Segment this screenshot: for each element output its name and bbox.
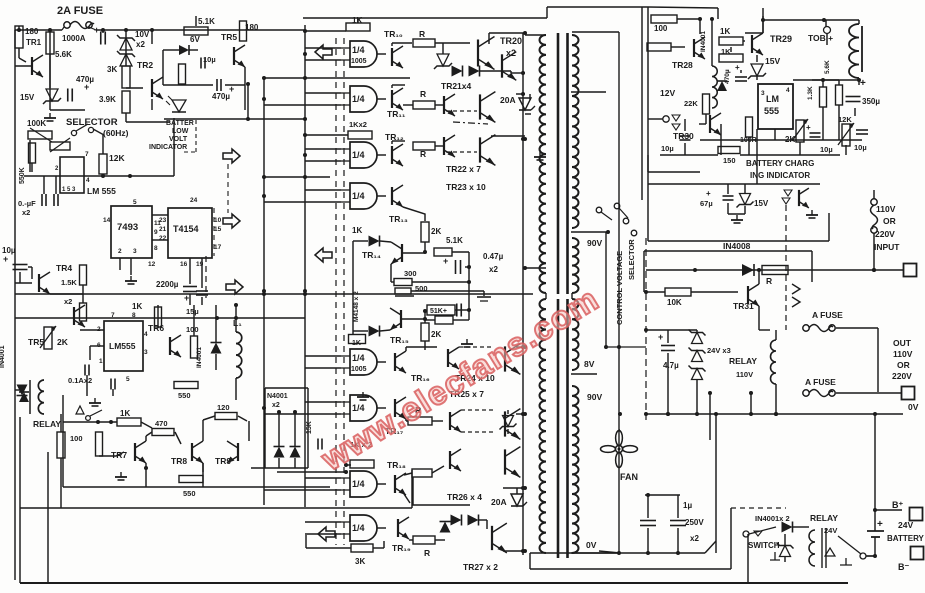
svg-text:220V: 220V	[892, 371, 912, 381]
svg-text:INDICATOR: INDICATOR	[149, 144, 187, 151]
svg-text:TR27 x 2: TR27 x 2	[463, 562, 498, 572]
svg-text:1/4: 1/4	[352, 403, 365, 413]
svg-text:20A: 20A	[500, 95, 516, 105]
svg-text:+: +	[94, 25, 99, 35]
svg-text:3K: 3K	[355, 557, 365, 566]
svg-text:2K: 2K	[431, 330, 441, 339]
svg-text:TR6: TR6	[148, 323, 164, 333]
svg-text:1K: 1K	[120, 409, 130, 418]
svg-text:17: 17	[214, 244, 222, 251]
svg-text:4: 4	[86, 177, 90, 184]
svg-text:2K: 2K	[431, 227, 441, 236]
svg-text:3.9K: 3.9K	[99, 95, 116, 104]
svg-text:B⁺: B⁺	[892, 500, 903, 510]
svg-text:L₁: L₁	[233, 318, 242, 328]
svg-text:N4001: N4001	[267, 393, 288, 400]
svg-text:24V: 24V	[898, 520, 913, 530]
svg-text:5: 5	[126, 376, 130, 383]
svg-text:10µ: 10µ	[661, 144, 674, 153]
svg-text:TR26 x 4: TR26 x 4	[447, 492, 482, 502]
svg-text:x2: x2	[136, 40, 145, 49]
svg-text:R: R	[419, 29, 425, 39]
svg-text:0.-µF: 0.-µF	[18, 199, 36, 208]
svg-text:100: 100	[70, 434, 83, 443]
svg-text:100: 100	[186, 325, 199, 334]
svg-text:5.6K: 5.6K	[824, 60, 831, 74]
svg-text:+: +	[806, 123, 811, 132]
svg-text:21: 21	[159, 226, 167, 233]
svg-text:1K: 1K	[352, 340, 361, 347]
svg-text:RELAY: RELAY	[33, 419, 61, 429]
svg-text:TR₁₀: TR₁₀	[384, 29, 403, 39]
svg-text:0V: 0V	[908, 402, 919, 412]
svg-text:1/4: 1/4	[352, 94, 365, 104]
svg-text:5.6K: 5.6K	[55, 50, 72, 59]
svg-text:100: 100	[654, 24, 668, 33]
svg-text:2: 2	[118, 248, 122, 255]
svg-text:12K: 12K	[838, 115, 852, 124]
svg-text:R: R	[766, 276, 772, 286]
svg-text:+: +	[877, 519, 883, 530]
svg-text:2K: 2K	[57, 337, 69, 347]
svg-text:+: +	[443, 256, 448, 266]
svg-text:TR5: TR5	[221, 32, 237, 42]
svg-text:1K: 1K	[352, 226, 362, 235]
svg-text:6V: 6V	[190, 35, 200, 44]
svg-text:5.1K: 5.1K	[446, 236, 463, 245]
svg-text:550: 550	[183, 489, 196, 498]
svg-text:1.5K: 1.5K	[61, 278, 77, 287]
svg-text:TR1: TR1	[26, 38, 42, 47]
svg-text:TR₁₁: TR₁₁	[387, 109, 406, 119]
svg-text:BATTERY CHARG: BATTERY CHARG	[746, 159, 814, 168]
svg-text:x2: x2	[22, 208, 30, 217]
svg-text:1/4: 1/4	[352, 150, 365, 160]
svg-text:0.47µ: 0.47µ	[483, 252, 504, 261]
svg-text:LM: LM	[766, 94, 779, 104]
svg-text:4.7µ: 4.7µ	[663, 361, 679, 370]
svg-text:TR4: TR4	[56, 263, 72, 273]
svg-text:15V: 15V	[765, 56, 780, 66]
svg-text:4: 4	[786, 87, 790, 94]
svg-text:LM 555: LM 555	[87, 186, 116, 196]
svg-text:470µ: 470µ	[212, 92, 230, 101]
svg-text:22: 22	[159, 235, 167, 242]
svg-text:180: 180	[25, 27, 39, 36]
svg-text:15µ: 15µ	[186, 307, 199, 316]
svg-text:R: R	[420, 149, 426, 159]
svg-text:x2: x2	[506, 48, 516, 58]
svg-text:24V x3: 24V x3	[707, 346, 731, 355]
svg-text:IN4001: IN4001	[0, 345, 6, 368]
svg-text:1/4: 1/4	[352, 191, 365, 201]
svg-text:5: 5	[133, 199, 137, 206]
svg-text:67µ: 67µ	[700, 199, 713, 208]
svg-text:1/4: 1/4	[352, 523, 365, 533]
svg-text:1/4: 1/4	[352, 479, 365, 489]
svg-text:IN4001: IN4001	[700, 31, 707, 52]
svg-text:+: +	[84, 82, 89, 92]
svg-text:350µ: 350µ	[862, 97, 880, 106]
svg-text:470: 470	[155, 419, 168, 428]
svg-text:300: 300	[404, 269, 417, 278]
svg-text:24V: 24V	[824, 526, 837, 535]
svg-text:TR₁₃: TR₁₃	[389, 214, 408, 224]
svg-text:OR: OR	[883, 216, 896, 226]
svg-text:7: 7	[111, 312, 115, 319]
svg-text:0V: 0V	[586, 540, 597, 550]
svg-text:1Kx2: 1Kx2	[349, 120, 367, 129]
svg-text:+: +	[658, 332, 663, 342]
svg-text:IN4001: IN4001	[196, 347, 203, 368]
svg-text:INPUT: INPUT	[874, 242, 900, 252]
svg-text:R: R	[420, 89, 426, 99]
svg-text:IN4001x 2: IN4001x 2	[755, 514, 790, 523]
svg-text:7: 7	[85, 151, 89, 158]
svg-text:CONTROL VOLTAGE: CONTROL VOLTAGE	[615, 251, 624, 325]
svg-text:9: 9	[154, 229, 158, 236]
svg-text:10µ: 10µ	[854, 143, 867, 152]
svg-text:M4148 x 2: M4148 x 2	[353, 291, 360, 322]
svg-text:FAN: FAN	[620, 472, 638, 482]
svg-text:22K: 22K	[684, 99, 698, 108]
svg-text:15K: 15K	[306, 421, 313, 434]
svg-text:51K+: 51K+	[430, 308, 447, 315]
svg-text:8: 8	[132, 312, 136, 319]
svg-text:2200µ: 2200µ	[156, 280, 179, 289]
svg-text:110V: 110V	[893, 349, 913, 359]
svg-text:14: 14	[103, 217, 111, 224]
svg-text:220V: 220V	[875, 229, 895, 239]
svg-text:90V: 90V	[587, 392, 602, 402]
svg-text:10K: 10K	[667, 298, 682, 307]
svg-text:LM555: LM555	[109, 341, 136, 351]
svg-text:TR₁₄: TR₁₄	[362, 250, 381, 260]
svg-text:7493: 7493	[117, 222, 138, 233]
svg-text:TR₁₅: TR₁₅	[390, 335, 409, 345]
svg-text:x2: x2	[489, 265, 498, 274]
svg-text:IN4008: IN4008	[723, 241, 751, 251]
svg-text:10V: 10V	[135, 30, 150, 39]
svg-text:TR2: TR2	[137, 60, 153, 70]
svg-text:10: 10	[214, 217, 222, 224]
svg-text:A FUSE: A FUSE	[805, 377, 836, 387]
svg-text:SELECTOR: SELECTOR	[627, 239, 636, 280]
svg-text:TR31: TR31	[733, 301, 754, 311]
svg-text:BATTERY: BATTERY	[887, 534, 925, 543]
svg-text:90V: 90V	[587, 238, 602, 248]
svg-text:20A: 20A	[491, 497, 507, 507]
svg-text:1: 1	[99, 358, 103, 365]
svg-text:TR29: TR29	[770, 34, 792, 44]
svg-text:15: 15	[214, 226, 222, 233]
svg-text:1.3K: 1.3K	[807, 86, 814, 100]
svg-text:ING INDICATOR: ING INDICATOR	[750, 171, 810, 180]
svg-text:555: 555	[764, 106, 779, 116]
svg-text:+: +	[706, 189, 711, 198]
svg-text:1005: 1005	[351, 366, 367, 373]
svg-text:1K: 1K	[720, 27, 730, 36]
svg-text:+: +	[184, 293, 189, 303]
svg-text:TR21x4: TR21x4	[441, 81, 472, 91]
svg-text:R: R	[424, 548, 430, 558]
svg-text:TOB +: TOB +	[808, 33, 833, 43]
svg-text:1/4: 1/4	[352, 45, 365, 55]
svg-text:T4154: T4154	[173, 224, 199, 234]
svg-text:1K: 1K	[132, 302, 142, 311]
svg-text:BATTER: BATTER	[166, 120, 194, 127]
svg-text:TR20: TR20	[500, 36, 522, 46]
svg-text:24: 24	[190, 197, 198, 204]
svg-text:3: 3	[761, 90, 765, 97]
svg-text:1/4: 1/4	[352, 353, 365, 363]
svg-text:470µ: 470µ	[724, 69, 731, 84]
svg-text:2A FUSE: 2A FUSE	[57, 5, 103, 17]
svg-text:+: +	[3, 254, 8, 264]
svg-text:(60Hz): (60Hz)	[103, 128, 129, 138]
svg-text:1µ: 1µ	[683, 501, 692, 510]
svg-text:12V: 12V	[660, 88, 675, 98]
svg-text:8: 8	[154, 245, 158, 252]
svg-text:x2: x2	[64, 297, 72, 306]
svg-text:0.1Ax2: 0.1Ax2	[68, 376, 92, 385]
svg-text:100K: 100K	[27, 119, 46, 128]
svg-text:TR28: TR28	[672, 60, 693, 70]
svg-text:110V: 110V	[736, 370, 753, 379]
svg-text:12: 12	[148, 261, 156, 268]
svg-text:SELECTOR: SELECTOR	[66, 117, 118, 128]
svg-text:SWITCH: SWITCH	[748, 541, 780, 550]
svg-text:10µ: 10µ	[820, 145, 833, 154]
svg-text:3: 3	[144, 349, 148, 356]
svg-text:1 5 3: 1 5 3	[62, 187, 76, 193]
svg-text:OR: OR	[897, 360, 910, 370]
svg-text:1005: 1005	[351, 58, 367, 65]
svg-text:8V: 8V	[584, 359, 595, 369]
svg-text:VOLT: VOLT	[169, 136, 188, 143]
svg-text:5.1K: 5.1K	[198, 17, 215, 26]
svg-text:B⁻: B⁻	[898, 562, 909, 572]
svg-text:+: +	[735, 63, 740, 72]
svg-text:x2: x2	[690, 534, 699, 543]
svg-text:150: 150	[723, 156, 736, 165]
svg-text:16: 16	[180, 261, 188, 268]
svg-text:TR₁₉: TR₁₉	[392, 543, 411, 553]
svg-text:TR8: TR8	[171, 456, 187, 466]
svg-text:23: 23	[159, 217, 167, 224]
svg-text:RELAY: RELAY	[810, 513, 838, 523]
svg-text:12K: 12K	[109, 153, 125, 163]
svg-text:TR23 x 10: TR23 x 10	[446, 182, 486, 192]
svg-text:15V: 15V	[754, 199, 769, 208]
svg-text:RELAY: RELAY	[729, 356, 757, 366]
svg-text:1K: 1K	[721, 47, 731, 56]
svg-text:550: 550	[178, 391, 191, 400]
svg-text:120: 120	[217, 403, 230, 412]
svg-text:250V: 250V	[685, 518, 704, 527]
svg-text:TR₁₈: TR₁₈	[387, 460, 406, 470]
svg-text:3: 3	[133, 248, 137, 255]
svg-text:1000A: 1000A	[62, 34, 86, 43]
svg-text:A FUSE: A FUSE	[812, 310, 843, 320]
svg-text:x2: x2	[272, 402, 280, 409]
svg-text:15V: 15V	[20, 93, 35, 102]
svg-text:3K: 3K	[107, 65, 117, 74]
svg-text:OUT: OUT	[893, 338, 912, 348]
svg-text:TR22 x 7: TR22 x 7	[446, 164, 481, 174]
svg-text:110V: 110V	[876, 204, 896, 214]
